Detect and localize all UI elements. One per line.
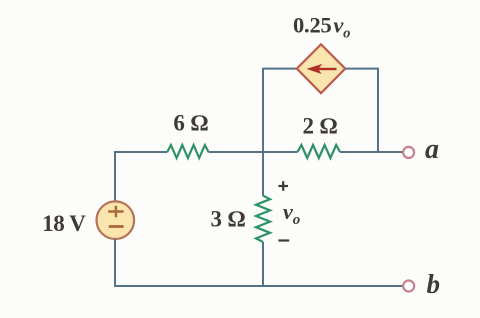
resistor 2 ohm (zigzag) bbox=[298, 145, 341, 158]
svg-text:6 Ω: 6 Ω bbox=[173, 110, 208, 135]
plus sign of vo polarity bbox=[278, 181, 288, 191]
resistor 6 ohm (zigzag) bbox=[167, 145, 208, 158]
wire: middle branch upper (node to 3 ohm) bbox=[262, 152, 264, 196]
minus sign of vo polarity bbox=[278, 239, 289, 241]
wire: top middle horizontal segment bbox=[209, 151, 298, 153]
svg-text:0.25vo: 0.25vo bbox=[293, 13, 350, 42]
svg-text:b: b bbox=[427, 269, 441, 299]
voltage source minus sign bbox=[109, 225, 124, 228]
dependent source arrow bbox=[307, 64, 337, 74]
wire: left vertical upper (to source) bbox=[114, 151, 116, 202]
wire: loop top-left horizontal bbox=[262, 68, 297, 70]
svg-text:a: a bbox=[425, 134, 439, 165]
resistor 3 ohm (vertical zigzag) bbox=[256, 196, 270, 242]
voltage source plus sign bbox=[108, 206, 123, 218]
wire: middle vertical upper (loop left side, node to dependent source) bbox=[262, 69, 264, 152]
dependent current source 0.25vo (diamond) bbox=[297, 44, 345, 93]
terminal a (open circle) bbox=[403, 147, 414, 158]
wire: left vertical lower bbox=[114, 239, 116, 287]
terminal b (open circle) bbox=[403, 281, 414, 292]
voltage source 18V (circle) bbox=[97, 201, 135, 239]
wire: middle branch lower bbox=[262, 242, 264, 287]
wire: loop top-right horizontal bbox=[345, 68, 379, 70]
svg-text:vo: vo bbox=[283, 199, 300, 228]
wire: bottom horizontal to terminal b bbox=[114, 285, 403, 287]
svg-text:18 V: 18 V bbox=[42, 211, 86, 236]
wire: top right horizontal to terminal a bbox=[340, 151, 403, 153]
svg-text:3 Ω: 3 Ω bbox=[210, 207, 245, 232]
wire: loop right vertical bbox=[377, 69, 379, 152]
svg-text:2 Ω: 2 Ω bbox=[303, 113, 338, 138]
wire: top-left horizontal segment bbox=[115, 151, 167, 153]
